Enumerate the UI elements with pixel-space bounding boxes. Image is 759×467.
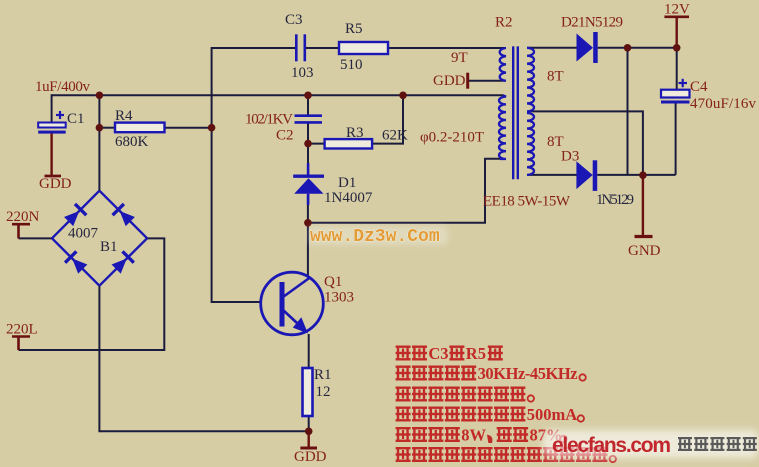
svg-text:680K: 680K: [115, 134, 149, 150]
ground GDD C1: [50, 134, 52, 176]
wire R5 to transformer primary top: [388, 47, 506, 49]
svg-text:GDD: GDD: [433, 73, 466, 89]
node C2 R3 D1 junction: [304, 140, 312, 148]
note line 4: [396, 407, 411, 422]
wire bridge right to corner and down to 220L run: [19, 238, 165, 350]
node D2 cathode junction: [624, 44, 632, 52]
wire R3 right lead up to rail: [372, 95, 403, 143]
resistor R3: [325, 139, 373, 148]
svg-text:12: 12: [316, 384, 331, 400]
node C1 rail junction: [96, 92, 104, 100]
ground GDD R1: [308, 431, 310, 447]
bridge diode bottom-left: [65, 251, 88, 274]
svg-text:GDD: GDD: [294, 449, 327, 465]
wire C1 drop: [51, 94, 53, 122]
wire R4 right lead: [165, 127, 212, 129]
node C2 rail junction: [304, 92, 312, 100]
transistor Q1: [261, 272, 324, 335]
capacitor C3: [296, 34, 305, 61]
diode D2: [577, 34, 594, 62]
svg-text:D21N5129: D21N5129: [561, 15, 623, 31]
bridge diode top-left: [63, 204, 86, 227]
diode D1: [293, 163, 324, 205]
svg-text:1303: 1303: [324, 290, 354, 306]
svg-text:D1: D1: [338, 175, 356, 191]
resistor R4: [115, 123, 165, 133]
watermark www.Dz3w.Com: [308, 226, 448, 245]
ground GND output: [642, 175, 644, 235]
wire C2 bottom lead to R3 node: [307, 124, 309, 144]
svg-text:GDD: GDD: [39, 176, 72, 192]
bridge diode top-right: [113, 204, 136, 227]
node R4 right junction: [208, 124, 216, 132]
wire bridge bottom down and along bottom to R1: [99, 286, 308, 432]
note line 5: [396, 427, 411, 442]
wire secondary top to D2: [527, 47, 577, 49]
svg-text:C4: C4: [690, 79, 708, 95]
svg-text:220L: 220L: [6, 322, 38, 338]
svg-text:φ0.2-210T: φ0.2-210T: [420, 130, 484, 146]
svg-text:B1: B1: [100, 239, 118, 255]
wire R4 left lead: [99, 127, 115, 129]
svg-text:103: 103: [291, 65, 314, 81]
diode D3: [576, 161, 592, 189]
transformer secondary winding 8T bottom: [527, 113, 534, 175]
svg-text:62K: 62K: [382, 128, 408, 144]
svg-text:R5: R5: [466, 344, 486, 363]
wire secondary bottom to D3: [527, 174, 578, 176]
svg-text:R4: R4: [115, 108, 133, 124]
svg-text:1N5129: 1N5129: [596, 192, 634, 208]
svg-text:R3: R3: [346, 125, 364, 141]
wire left vertical C1 junction to bridge top: [98, 95, 100, 191]
svg-text:C3: C3: [285, 12, 303, 28]
wire node to D1 top: [307, 144, 309, 175]
resistor R5: [339, 42, 388, 54]
svg-text:R1: R1: [314, 367, 332, 383]
wire D2 D3 cathode join vertical: [627, 48, 629, 175]
bridge rectifier B1: [52, 191, 147, 286]
capacitor C1: [38, 111, 65, 134]
svg-text:R5: R5: [345, 21, 363, 37]
wire R1 top to Q1 emitter: [308, 334, 310, 368]
node R4 left junction: [96, 124, 104, 132]
wire C2 top lead from rail: [307, 95, 309, 114]
svg-text:Q1: Q1: [324, 274, 342, 290]
node 12V C4 junction: [673, 44, 681, 52]
svg-text:30KHz-45KHz: 30KHz-45KHz: [478, 364, 578, 383]
node D1 collector junction: [304, 219, 312, 227]
transformer core: [512, 46, 514, 179]
transformer GDD terminal: [466, 73, 469, 89]
note line 1: [396, 346, 411, 361]
svg-text:R2: R2: [495, 15, 513, 31]
wire C3 to R5: [305, 47, 339, 49]
svg-text:9T: 9T: [451, 50, 468, 66]
svg-text:www.Dz3w.Com: www.Dz3w.Com: [310, 227, 440, 247]
transformer T1 primary winding 9T: [500, 48, 506, 81]
wire 220N to bridge left: [19, 237, 54, 239]
svg-text:220N: 220N: [6, 209, 40, 225]
svg-text:8W: 8W: [461, 426, 486, 445]
bridge diode bottom-right: [110, 251, 133, 274]
svg-text:GND: GND: [628, 243, 661, 259]
svg-text:1N4007: 1N4007: [324, 190, 373, 206]
node R3 rail junction: [399, 92, 407, 100]
resistor R1: [303, 368, 313, 416]
wire C4 top lead: [676, 48, 678, 90]
wire C4 bottom lead: [675, 103, 677, 175]
svg-text:8T: 8T: [547, 69, 564, 85]
svg-text:102/1KV: 102/1KV: [245, 112, 293, 128]
svg-text:12V: 12V: [664, 2, 690, 18]
capacitor C2: [295, 116, 323, 123]
note line 6: [396, 447, 411, 462]
transformer secondary winding 8T top: [527, 48, 534, 112]
svg-text:C3: C3: [428, 344, 448, 363]
capacitor C4: [661, 79, 690, 104]
wire D1 node to transformer primary bottom: [308, 159, 500, 223]
svg-text:D3: D3: [561, 149, 579, 165]
svg-text:500mA: 500mA: [527, 405, 577, 424]
svg-text:510: 510: [340, 57, 363, 73]
svg-text:470uF/16v: 470uF/16v: [690, 96, 757, 112]
note line 2: [396, 366, 411, 381]
wire D1 bottom to node: [307, 196, 309, 223]
wire D2 cathode to 12V node: [598, 47, 677, 49]
svg-text:1uF/400v: 1uF/400v: [35, 79, 91, 95]
wire R3 left lead: [308, 143, 325, 145]
svg-text:C1: C1: [67, 111, 85, 127]
note line 3: [396, 387, 411, 402]
wire Q1 collector up to D1 node: [307, 223, 309, 277]
svg-text:4007: 4007: [68, 226, 99, 242]
svg-text:elecfans.com: elecfans.com: [552, 434, 671, 457]
wire transformer GDD lead: [469, 80, 506, 82]
wire center tap to GND node: [530, 111, 643, 175]
node R1 bottom junction: [305, 428, 313, 436]
svg-text:C2: C2: [276, 128, 294, 144]
wire D3 cathode run to C4 bottom: [597, 174, 675, 176]
svg-text:EE18 5W-15W: EE18 5W-15W: [483, 194, 571, 210]
node GND junction: [639, 171, 647, 179]
transformer T1 primary winding 2: [499, 95, 506, 159]
wire R1 bottom lead: [308, 416, 310, 431]
wire top feedback rail: [212, 48, 296, 302]
wire main rail: [52, 94, 504, 96]
watermark chinese suffix: [678, 437, 692, 451]
